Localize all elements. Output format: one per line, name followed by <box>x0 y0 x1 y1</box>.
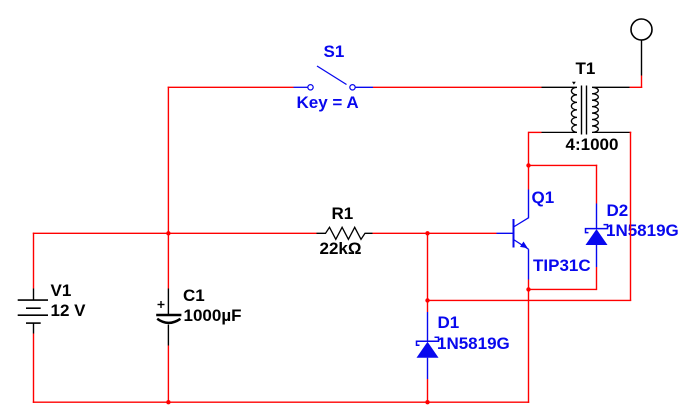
svg-text:4:1000: 4:1000 <box>566 135 619 154</box>
svg-text:Q1: Q1 <box>532 188 555 207</box>
svg-text:T1: T1 <box>576 59 596 78</box>
svg-text:1N5819G: 1N5819G <box>437 334 510 353</box>
svg-text:12 V: 12 V <box>51 301 87 320</box>
svg-text:22kΩ: 22kΩ <box>320 239 362 258</box>
svg-text:TIP31C: TIP31C <box>533 256 591 275</box>
svg-text:V1: V1 <box>51 281 72 300</box>
svg-text:C1: C1 <box>183 286 205 305</box>
svg-text:D1: D1 <box>438 313 460 332</box>
svg-text:Key = A: Key = A <box>297 93 359 112</box>
svg-text:S1: S1 <box>324 42 345 61</box>
svg-text:1000µF: 1000µF <box>184 306 242 325</box>
svg-text:D2: D2 <box>607 201 629 220</box>
svg-text:R1: R1 <box>332 204 354 223</box>
svg-text:1N5819G: 1N5819G <box>606 221 679 240</box>
